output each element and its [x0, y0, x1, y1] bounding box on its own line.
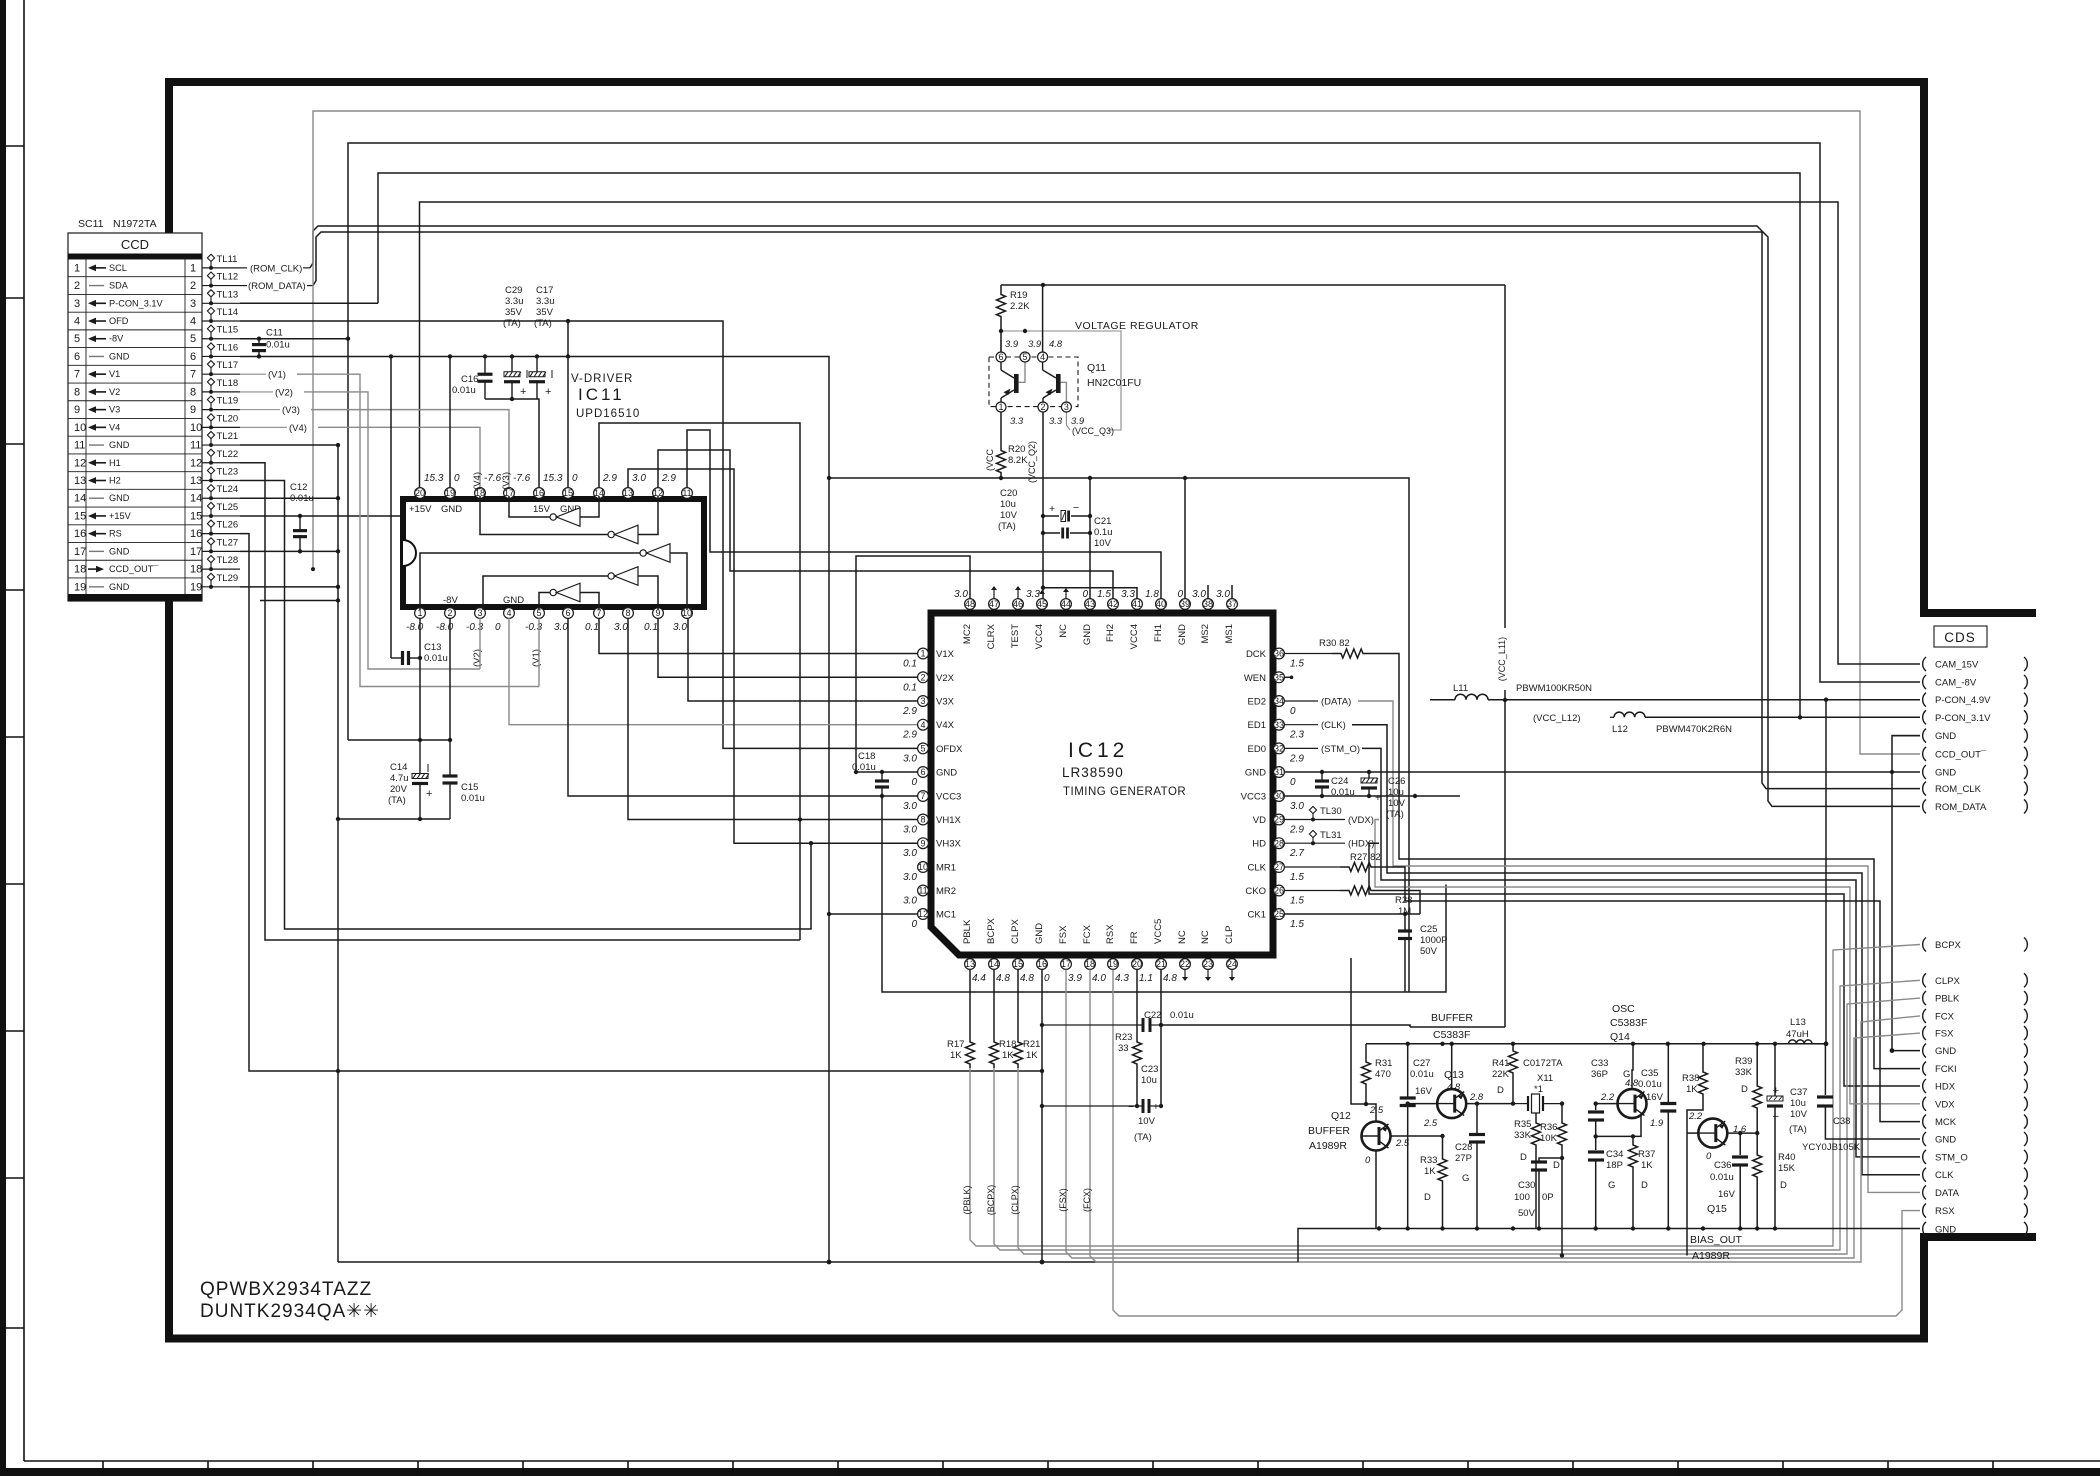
svg-text:-8V: -8V [109, 334, 124, 344]
svg-text:R35: R35 [1514, 1119, 1531, 1130]
sheet bottom tick 5 [522, 1461, 524, 1476]
resistor R21 [1017, 970, 1019, 1039]
transistor Q15 [1698, 1119, 1727, 1148]
svg-text:(TA): (TA) [534, 318, 552, 329]
connector CDS pin PBLK [1923, 991, 1926, 1005]
schematic border bottom [165, 1335, 1928, 1343]
svg-text:GND: GND [441, 504, 462, 515]
transistor Q11 pin 1 [996, 402, 1006, 412]
svg-text:4.7u: 4.7u [390, 773, 409, 784]
svg-text:13: 13 [190, 475, 202, 487]
svg-text:PBWM100KR50N: PBWM100KR50N [1516, 683, 1592, 694]
test point TL18 [202, 391, 240, 393]
svg-text:V1: V1 [109, 369, 120, 379]
svg-text:2.9: 2.9 [902, 730, 917, 741]
ic IC12 pin 21 VCC5 [1156, 959, 1167, 970]
svg-text:GND: GND [936, 768, 957, 779]
resistor R17 [969, 970, 971, 1039]
svg-text:G: G [1608, 1180, 1615, 1191]
capacitor C36 [1739, 1133, 1741, 1155]
test point TL13 [202, 302, 240, 304]
ic IC12 pin 44 NC [1061, 599, 1072, 610]
svg-text:12: 12 [190, 457, 202, 469]
connector CCD row 9 V3 [68, 417, 202, 419]
svg-text:8: 8 [625, 608, 630, 618]
ic IC11 pin 8 [623, 608, 634, 619]
capacitor C28 [1476, 1131, 1478, 1135]
svg-text:GND: GND [109, 582, 130, 592]
wire BIAS_OUT line [1560, 1253, 1564, 1257]
test point TL25 [202, 515, 240, 517]
svg-text:20: 20 [415, 488, 425, 498]
ic IC12 pin 25 CK1 [1274, 909, 1285, 920]
ic IC12 body [931, 613, 1273, 955]
wire VCC4 jog [1043, 588, 1137, 599]
svg-text:CLK: CLK [1935, 1170, 1954, 1181]
ic IC12 pin 28 HD [1274, 838, 1285, 849]
ic IC12 pin 8 VH1X [918, 814, 929, 825]
ic IC12 pin 16 GND [1037, 959, 1048, 970]
sheet bottom tick 8 [837, 1461, 839, 1476]
svg-text:2.3: 2.3 [1289, 730, 1304, 741]
svg-text:3.0: 3.0 [903, 753, 917, 764]
svg-text:10V: 10V [1094, 538, 1112, 549]
svg-text:13: 13 [74, 475, 86, 487]
wire Q13 node down [1476, 1104, 1478, 1131]
svg-text:PBLK: PBLK [1935, 994, 1960, 1005]
svg-text:(VCC_L11): (VCC_L11) [1497, 637, 1507, 681]
svg-text:TL31: TL31 [1320, 830, 1342, 841]
svg-text:FCX: FCX [1082, 924, 1093, 944]
svg-text:OFDX: OFDX [936, 744, 963, 755]
svg-text:45: 45 [1037, 599, 1047, 609]
connector CCD box outline [68, 233, 202, 601]
test point TL16 [202, 355, 240, 357]
sheet left tick 3 [4, 443, 24, 445]
svg-text:GND: GND [109, 493, 130, 503]
connector CCD row 16 RS [68, 542, 202, 544]
transistor Q11 right element [1056, 374, 1061, 393]
svg-text:DCK: DCK [1246, 649, 1267, 660]
svg-text:3.3u: 3.3u [536, 296, 555, 307]
inverter gate E [550, 589, 556, 595]
svg-text:33: 33 [1118, 1043, 1129, 1054]
sheet bottom tick 6 [627, 1461, 629, 1476]
svg-text:GND: GND [109, 351, 130, 361]
capacitor C24 [1321, 772, 1323, 781]
svg-text:C21: C21 [1094, 516, 1111, 527]
svg-text:10: 10 [918, 862, 928, 872]
wire Q14 collector [1632, 1044, 1633, 1089]
net label (ROM_CLK) [240, 267, 247, 269]
transistor Q11 pin 4 [1038, 352, 1048, 362]
svg-text:+15V: +15V [409, 504, 432, 515]
svg-text:D: D [1641, 1180, 1648, 1191]
connector CDS pin VDX [1923, 1097, 1926, 1111]
resistor R18 [993, 970, 995, 1039]
svg-text:TL15: TL15 [217, 325, 239, 336]
connector CDS pin CLPX [1923, 973, 1926, 987]
svg-text:IC12: IC12 [1068, 739, 1128, 762]
ic IC12 pin 13 PBLK [965, 959, 976, 970]
test point TL11 [202, 267, 240, 269]
ic IC11 pin 6 [563, 608, 574, 619]
svg-text:R28: R28 [1395, 895, 1412, 906]
svg-text:0.01u: 0.01u [1170, 1010, 1194, 1021]
connector CCD row 3 P-CON_3.1V [68, 311, 202, 313]
wire u-loop [882, 796, 1446, 992]
svg-text:C34: C34 [1606, 1149, 1623, 1160]
ic IC11 pin 13 [623, 488, 634, 499]
wire ED0 STM_O [1285, 747, 1318, 749]
svg-text:0: 0 [1290, 706, 1296, 717]
wire pin14 riser [599, 423, 800, 940]
svg-text:4.4: 4.4 [972, 973, 986, 984]
svg-text:4: 4 [506, 608, 511, 618]
connector CDS pin CCD_OUT¯ [1923, 747, 1926, 761]
svg-text:STM_O: STM_O [1935, 1152, 1968, 1163]
svg-text:(V1): (V1) [268, 370, 286, 381]
wire V2X link [658, 618, 923, 677]
svg-text:CCD: CCD [121, 237, 149, 252]
connector CCD row 14 GND [68, 506, 202, 508]
svg-text:1.5: 1.5 [1290, 659, 1304, 670]
svg-text:H1: H1 [109, 458, 121, 468]
capacitor C26 [1368, 772, 1370, 778]
resistor R23 [1136, 970, 1138, 1039]
svg-text:4.8: 4.8 [996, 973, 1010, 984]
wire GND rail 478 [829, 478, 1409, 992]
svg-text:14: 14 [74, 493, 86, 505]
svg-text:(TA): (TA) [1134, 1132, 1152, 1143]
svg-text:1000P: 1000P [1420, 935, 1447, 946]
svg-text:0.01u: 0.01u [852, 762, 876, 773]
svg-text:7: 7 [190, 369, 196, 381]
wire C14 top tie [348, 739, 450, 741]
svg-text:5: 5 [190, 333, 196, 345]
svg-text:TL22: TL22 [217, 449, 239, 460]
connector CCD row 12 H1 [68, 471, 202, 473]
svg-text:D: D [1424, 1192, 1431, 1203]
ic IC12 pin 24 CLP [1227, 959, 1238, 970]
svg-text:YCY0JB105K: YCY0JB105K [1802, 1142, 1861, 1153]
svg-text:(V2): (V2) [275, 387, 293, 398]
svg-text:3.0: 3.0 [903, 872, 917, 883]
transistor Q13 [1437, 1089, 1466, 1118]
svg-text:GND: GND [1935, 731, 1956, 742]
svg-text:3: 3 [190, 298, 196, 310]
svg-text:3.9: 3.9 [1068, 973, 1082, 984]
svg-text:(FSX): (FSX) [1058, 1188, 1068, 1212]
svg-text:35: 35 [1274, 673, 1284, 683]
ic IC12 stub 46 [1017, 590, 1019, 599]
svg-text:3.3: 3.3 [1026, 589, 1040, 600]
schematic border notch top [1920, 609, 2036, 617]
wire CAM_-8V bus [240, 338, 348, 340]
svg-text:VOLTAGE REGULATOR: VOLTAGE REGULATOR [1075, 320, 1199, 332]
svg-text:TL28: TL28 [217, 555, 239, 566]
connector CDS pin GND [1923, 1044, 1926, 1058]
svg-text:17: 17 [74, 546, 86, 558]
svg-text:3.0: 3.0 [903, 825, 917, 836]
svg-text:3.0: 3.0 [614, 622, 628, 633]
wire V2 net [304, 392, 480, 669]
connector CDS pin FCKI [1923, 1062, 1926, 1076]
svg-text:0: 0 [911, 919, 917, 930]
svg-text:44: 44 [1061, 599, 1071, 609]
wire HD HDX [1285, 842, 1345, 844]
svg-text:3.9: 3.9 [1028, 339, 1042, 350]
wire ED2 DATA [1285, 700, 1318, 702]
svg-text:15: 15 [74, 510, 86, 522]
wire CDS GND3 link [1892, 1050, 1920, 1052]
svg-text:PBLK: PBLK [962, 919, 973, 944]
svg-text:C37: C37 [1790, 1087, 1807, 1098]
svg-text:3.9: 3.9 [1005, 339, 1019, 350]
svg-text:0.1u: 0.1u [1094, 527, 1113, 538]
svg-text:TL30: TL30 [1320, 806, 1342, 817]
ic IC12 pin 3 V3X [918, 696, 929, 707]
svg-text:18: 18 [190, 564, 202, 576]
svg-text:ROM_CLK: ROM_CLK [1935, 784, 1982, 795]
svg-text:C20: C20 [1000, 488, 1017, 499]
connector CDS pin MCK [1923, 1115, 1926, 1129]
svg-text:GND: GND [109, 546, 130, 556]
svg-text:Q11: Q11 [1087, 362, 1106, 374]
svg-text:TL23: TL23 [217, 467, 239, 478]
svg-text:TL29: TL29 [217, 573, 239, 584]
svg-text:V3X: V3X [936, 697, 955, 708]
sheet bottom tick 18 [1887, 1461, 1889, 1476]
connector CDS pin P-CON_3.1V [1923, 710, 1926, 724]
svg-text:WEN: WEN [1244, 673, 1266, 684]
svg-text:2.9: 2.9 [902, 706, 917, 717]
svg-text:CK1: CK1 [1248, 910, 1266, 921]
svg-text:-0.3: -0.3 [525, 622, 543, 633]
wire H2 net [240, 481, 811, 930]
svg-text:GND: GND [1935, 768, 1956, 779]
svg-text:1: 1 [998, 402, 1003, 412]
svg-text:TL24: TL24 [217, 484, 239, 495]
svg-text:NC: NC [1200, 930, 1211, 944]
wire CDS GND1 link [1892, 735, 1920, 737]
svg-text:10: 10 [190, 422, 202, 434]
ic IC12 pin 31 GND [1274, 767, 1285, 778]
wire BCPX drop [994, 980, 1920, 1250]
connector CCD title bar [68, 254, 202, 260]
svg-text:R17: R17 [947, 1039, 964, 1050]
svg-text:30: 30 [1274, 791, 1284, 801]
ic IC12 pin 30 VCC3 [1274, 791, 1285, 802]
test point TL15 [202, 338, 240, 340]
wire ED1 CLK [1285, 724, 1318, 726]
svg-text:MR2: MR2 [936, 886, 956, 897]
capacitor C21 [1043, 532, 1060, 534]
svg-text:DATA: DATA [1935, 1188, 1960, 1199]
svg-text:C13: C13 [424, 642, 441, 653]
svg-text:0.01u: 0.01u [1331, 787, 1355, 798]
svg-text:0.01u: 0.01u [1410, 1069, 1434, 1080]
svg-text:TL16: TL16 [217, 342, 239, 353]
ic IC12 pin 41 VCC4 [1132, 599, 1143, 610]
svg-text:3.3: 3.3 [1121, 589, 1135, 600]
test point TL22 [202, 462, 240, 464]
svg-text:7: 7 [74, 369, 80, 381]
svg-text:ED1: ED1 [1248, 720, 1266, 731]
svg-text:10u: 10u [1790, 1098, 1806, 1109]
schematic border left lower [165, 601, 173, 1339]
sheet bottom tick 14 [1467, 1461, 1469, 1476]
svg-text:(ROM_CLK): (ROM_CLK) [250, 263, 302, 274]
svg-text:16V: 16V [1718, 1189, 1736, 1200]
svg-text:L11: L11 [1453, 683, 1468, 694]
svg-text:SCL: SCL [109, 263, 127, 273]
svg-text:4: 4 [74, 316, 80, 328]
svg-text:(V3): (V3) [282, 405, 300, 416]
wire ROM_DATA bus [313, 232, 1920, 806]
capacitor C33 [1595, 1104, 1597, 1110]
svg-text:4.8: 4.8 [1049, 339, 1063, 350]
svg-text:6: 6 [920, 767, 925, 777]
svg-text:FH2: FH2 [1105, 624, 1116, 642]
svg-text:(V3): (V3) [501, 472, 512, 490]
svg-text:C15: C15 [461, 782, 478, 793]
resistor R31 [1365, 1044, 1367, 1058]
svg-text:0: 0 [1177, 589, 1183, 600]
svg-text:X11: X11 [1537, 1073, 1553, 1084]
svg-text:9: 9 [190, 404, 196, 416]
svg-text:(DATA): (DATA) [1321, 697, 1351, 708]
svg-text:3.0: 3.0 [903, 896, 917, 907]
capacitor C13 [391, 657, 403, 659]
svg-text:CCD_OUT¯: CCD_OUT¯ [109, 564, 159, 574]
svg-text:(VDX): (VDX) [1348, 815, 1374, 826]
ic IC12 pin 48 MC2 [965, 599, 976, 610]
svg-text:BUFFER: BUFFER [1308, 1125, 1350, 1137]
svg-text:34: 34 [1274, 696, 1284, 706]
wire Q12 collector [1375, 1151, 1377, 1229]
ic IC11 pin 20 [415, 488, 426, 499]
svg-text:(VCC: (VCC [985, 449, 995, 471]
svg-text:(HDX): (HDX) [1348, 839, 1374, 850]
wire GND31 [1285, 771, 1892, 773]
svg-text:15.3: 15.3 [543, 473, 563, 484]
svg-text:3.9: 3.9 [1071, 416, 1085, 427]
svg-text:0.1: 0.1 [903, 682, 917, 693]
wire R36 bias [1561, 1150, 1563, 1256]
svg-text:2.7: 2.7 [1289, 848, 1304, 859]
svg-text:48: 48 [965, 599, 975, 609]
svg-text:D: D [1497, 1085, 1504, 1096]
wire MS2 stub [1207, 585, 1209, 599]
svg-text:-7.6: -7.6 [513, 473, 531, 484]
svg-text:VH1X: VH1X [936, 815, 961, 826]
svg-text:V3: V3 [109, 405, 120, 415]
ic IC12 pin 35 WEN [1274, 672, 1285, 683]
capacitor C34 [1595, 1136, 1597, 1150]
svg-text:CLPX: CLPX [1010, 919, 1021, 944]
capacitor C15 [449, 740, 451, 776]
sheet left tick 5 [4, 736, 24, 738]
svg-text:8: 8 [920, 815, 925, 825]
test point TL28 [202, 568, 240, 570]
svg-text:C27: C27 [1413, 1058, 1430, 1069]
connector CCD col line 2 [184, 259, 186, 594]
svg-text:1.5: 1.5 [1290, 896, 1304, 907]
capacitor C14 [419, 740, 421, 774]
svg-text:CLPX: CLPX [1935, 976, 1960, 987]
svg-text:4: 4 [920, 720, 925, 730]
svg-text:27P: 27P [1455, 1153, 1472, 1164]
svg-text:D: D [1780, 1180, 1787, 1191]
svg-text:39: 39 [1180, 599, 1190, 609]
svg-text:TL20: TL20 [217, 413, 239, 424]
sheet bottom tick 16 [1677, 1461, 1679, 1476]
svg-text:LR38590: LR38590 [1062, 765, 1124, 780]
svg-text:R20: R20 [1008, 444, 1025, 455]
svg-text:C24: C24 [1331, 776, 1348, 787]
svg-text:QPWBX2934TAZZ: QPWBX2934TAZZ [200, 1279, 372, 1300]
svg-text:(VCC_Q3): (VCC_Q3) [1072, 426, 1114, 436]
wire VCC5 drop [1160, 970, 1162, 1107]
svg-text:15: 15 [1013, 959, 1023, 969]
svg-text:GND: GND [1245, 768, 1266, 779]
svg-text:CLK: CLK [1248, 863, 1267, 874]
resistor R37 [1632, 1136, 1634, 1140]
svg-text:12: 12 [918, 909, 928, 919]
svg-text:11: 11 [682, 488, 691, 498]
connector CDS pin P-CON_4.9V [1923, 693, 1926, 707]
svg-text:GND: GND [1935, 1224, 1956, 1235]
svg-text:+: + [1049, 503, 1055, 515]
wire IC11 pin15 gnd riser [567, 321, 569, 488]
svg-text:FH1: FH1 [1153, 624, 1164, 642]
test point TL14 [202, 320, 240, 322]
svg-text:(V1): (V1) [531, 649, 542, 667]
svg-text:C26: C26 [1388, 776, 1405, 787]
svg-text:DUNTK2934QA✳✳: DUNTK2934QA✳✳ [200, 1301, 380, 1322]
test point TL19 [202, 409, 240, 411]
ic IC12 pin 23 NC [1203, 959, 1214, 970]
svg-text:V1X: V1X [936, 649, 955, 660]
capacitor C30 [1539, 1158, 1562, 1162]
svg-text:-8.0: -8.0 [436, 622, 454, 633]
resistor R38 [1702, 1044, 1704, 1068]
wire GND left bus [240, 444, 338, 446]
svg-text:3: 3 [920, 696, 925, 706]
ic IC12 pin 36 DCK [1274, 648, 1285, 659]
ic IC12 pin 1 V1X [918, 648, 929, 659]
wire VH1X link [628, 618, 923, 820]
svg-text:FSX: FSX [1935, 1029, 1954, 1040]
svg-text:18: 18 [1085, 959, 1095, 969]
ic IC12 pin 18 FCX [1085, 959, 1096, 970]
ic IC12 pin 27 CLK [1274, 862, 1285, 873]
ic IC12 pin 15 CLPX [1013, 959, 1024, 970]
svg-text:C25: C25 [1420, 924, 1437, 935]
svg-text:V4X: V4X [936, 720, 955, 731]
svg-text:R19: R19 [1010, 290, 1027, 301]
ic IC12 pin 38 MS2 [1203, 599, 1214, 610]
svg-text:6: 6 [74, 351, 80, 363]
svg-text:-8V: -8V [443, 595, 458, 606]
svg-text:0.01u: 0.01u [424, 653, 448, 664]
svg-text:3.3: 3.3 [1010, 416, 1024, 427]
wire R19 top rail [1001, 284, 1505, 286]
svg-text:1K: 1K [1641, 1160, 1653, 1171]
connector CCD row 7 V1 [68, 382, 202, 384]
test point TL23 [202, 480, 240, 482]
